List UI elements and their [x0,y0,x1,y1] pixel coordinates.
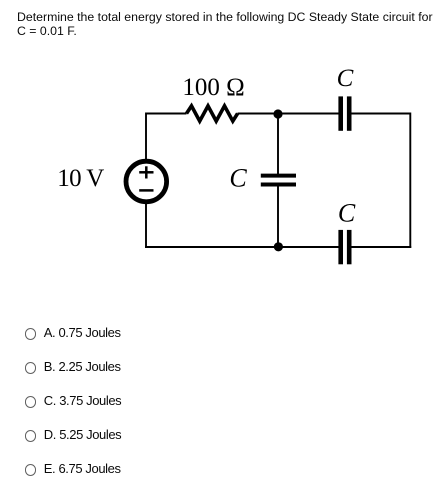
node A junction dot [273,109,282,118]
wire bottom left [145,246,339,248]
wire right vertical [409,113,411,249]
node B junction dot [274,242,283,251]
capacitor C middle plates [261,174,296,178]
wire source to bottom [145,203,147,248]
voltage source V1 circle [126,161,167,202]
wire bottom right [351,246,411,248]
wire capacitor C middle to node B [277,186,279,248]
svg-text:10 V: 10 V [57,165,104,192]
resistor R 100 ohm zigzag [187,106,238,121]
voltage source plus sign [139,171,153,174]
svg-text:C: C [338,199,356,228]
svg-text:C: C [337,65,354,92]
wire resistor to node A [238,113,339,115]
voltage source minus sign [139,189,153,192]
svg-text:100 Ω: 100 Ω [182,74,244,101]
capacitor C bottom plates [338,230,343,264]
wire node A down to capacitor C middle [277,114,279,175]
capacitor C top plates [338,96,343,130]
svg-text:C: C [229,164,247,193]
wire node A to top capacitor / right [351,113,411,115]
wire top-left vertical [145,113,147,162]
wire top-left horizontal [146,113,187,115]
